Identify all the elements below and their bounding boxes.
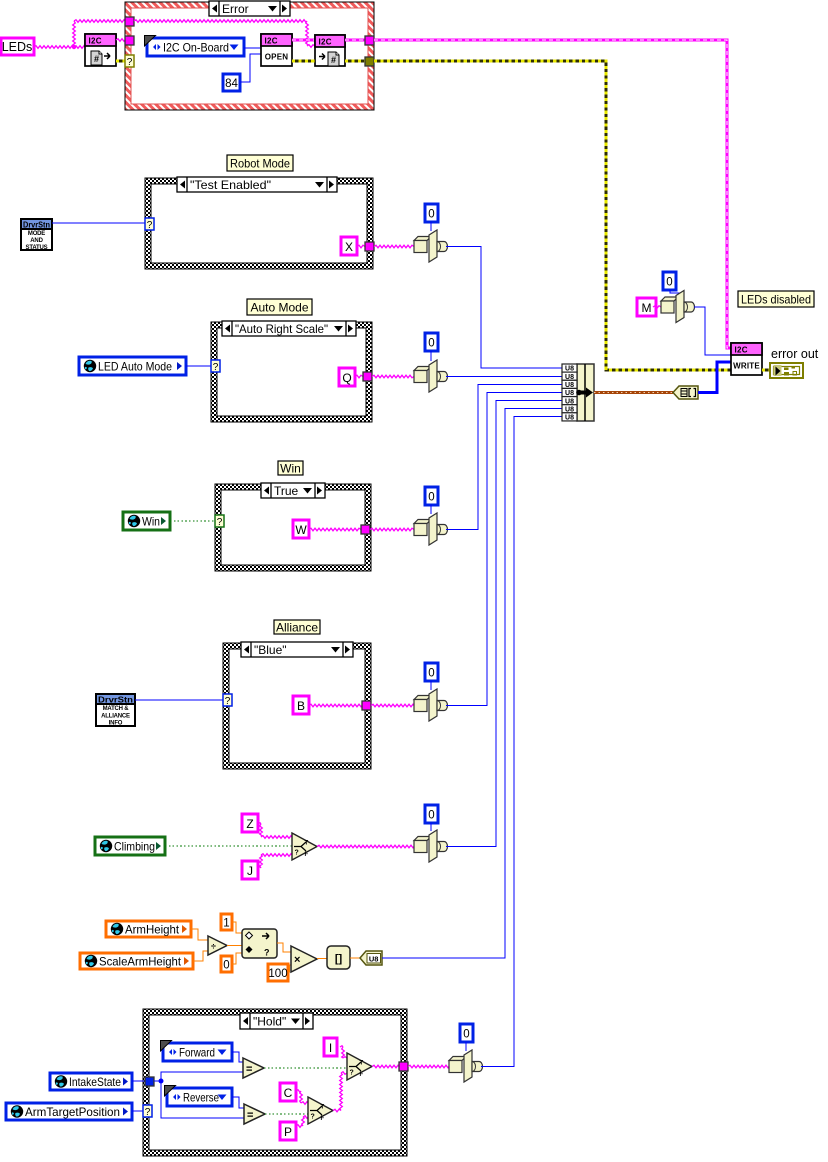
multiply node — [291, 946, 317, 972]
svg-text:0: 0 — [428, 209, 434, 221]
svg-text:Reverse: Reverse — [183, 1091, 219, 1105]
label Win — [278, 461, 303, 476]
wire C to select-CP — [296, 1090, 308, 1105]
constant 0 (climbing) — [425, 805, 438, 823]
global ArmHeight — [106, 921, 191, 937]
svg-text:"Test Enabled": "Test Enabled" — [190, 178, 271, 192]
string constant B — [293, 696, 309, 714]
svg-text:Robot Mode: Robot Mode — [230, 157, 290, 171]
case structure Win — [215, 484, 371, 571]
select node I — [347, 1053, 372, 1080]
node U3 I2C write-register (arrow page#) — [315, 35, 345, 66]
in-range-and-coerce node — [242, 929, 277, 958]
tunnel IntakeState (blue) — [145, 1077, 154, 1086]
wire refnum U3 to right tunnel — [345, 39, 365, 42]
wire 0 to typecast alliance — [430, 681, 432, 690]
svg-text:LED Auto Mode: LED Auto Mode — [98, 360, 172, 374]
svg-text:C: C — [284, 1086, 293, 1100]
svg-text:I: I — [329, 1041, 332, 1055]
svg-text:ArmHeight: ArmHeight — [125, 923, 180, 937]
wire refnum long (to I2C WRITE) — [374, 40, 731, 348]
wire IntakeState to tunnel — [132, 1080, 145, 1082]
wire 100 to multiply — [288, 965, 291, 972]
svg-text:I2C: I2C — [265, 37, 278, 46]
divide node — [208, 936, 227, 955]
indicator error out — [770, 347, 819, 378]
svg-text:?: ? — [264, 948, 270, 958]
string constant W — [293, 520, 309, 538]
string constant C — [280, 1083, 296, 1101]
case selector Hold — [240, 1013, 313, 1029]
node U1 I2C set-address (page# then arrow) — [85, 34, 116, 66]
svg-text:0: 0 — [428, 492, 434, 504]
constant 0 (hold) — [460, 1024, 473, 1042]
svg-text:MATCH &: MATCH & — [103, 706, 130, 712]
wire 1 to in-range — [232, 922, 242, 933]
svg-text:0: 0 — [223, 960, 229, 972]
bundle node (7x U8) — [562, 364, 594, 422]
wire error U2 to U3 — [292, 60, 315, 63]
wire Z to select — [258, 823, 292, 839]
tunnel B out — [362, 701, 371, 710]
wire I to select-I — [340, 1046, 347, 1058]
svg-text:0: 0 — [428, 668, 434, 680]
control LEDs (string control label) — [1, 38, 34, 55]
case structure Auto Mode — [211, 322, 372, 422]
wire U1 refnum out to tunnel T2 — [116, 39, 125, 42]
case structure Alliance — [223, 643, 371, 769]
wire byte win to bundle — [446, 385, 562, 530]
wire Climbing boolean to select — [165, 845, 292, 847]
enum constant I2C On-Board — [145, 36, 245, 57]
equal node 1 — [243, 1058, 264, 1078]
global LED Auto Mode — [79, 357, 186, 375]
svg-text:#: # — [94, 54, 99, 64]
wire byte robot to bundle — [446, 247, 562, 369]
constant 100 — [268, 964, 288, 981]
case selector Auto Right Scale — [222, 321, 356, 336]
wire equal1 boolean to select-I — [264, 1067, 347, 1069]
wire M to typecast — [653, 306, 661, 309]
node U4 I2C WRITE — [731, 343, 762, 375]
global ArmTargetPosition — [6, 1103, 132, 1120]
svg-text:STATUS: STATUS — [26, 245, 48, 251]
typecast win — [414, 513, 448, 545]
constant 0 (auto) — [425, 333, 438, 351]
selector tunnel ? alliance — [223, 694, 232, 707]
wire select-I out to tunnel — [372, 1065, 399, 1068]
case structure Hold — [143, 1009, 407, 1156]
tunnel T2 magenta (left) — [125, 36, 134, 45]
svg-text:IntakeState: IntakeState — [69, 1075, 121, 1089]
svg-text:W: W — [295, 523, 307, 537]
svg-text:Z: Z — [246, 817, 253, 831]
svg-text:?: ? — [213, 362, 219, 373]
case selector label Error — [209, 1, 290, 16]
constant 84 — [223, 74, 240, 91]
svg-text:Win: Win — [142, 515, 160, 529]
svg-text:÷: ÷ — [211, 942, 216, 952]
wire equal2 boolean to select-CP — [265, 1113, 308, 1115]
wire B tunnel to typecast — [371, 704, 414, 707]
node DrvrStn MODE AND STATUS — [21, 219, 52, 251]
typecast auto-mode — [414, 360, 448, 392]
wire in-range to multiply — [277, 943, 291, 952]
constant 0 (alliance) — [425, 663, 438, 681]
svg-text:"Auto Right Scale": "Auto Right Scale" — [235, 322, 328, 336]
tunnel T1 magenta (left, LEDs wire) — [125, 17, 134, 26]
svg-text:0: 0 — [428, 810, 434, 822]
svg-text:0: 0 — [666, 277, 672, 289]
wire W tunnel to typecast — [370, 528, 414, 531]
wire IntakeState branch (junction) — [154, 1072, 244, 1118]
svg-text:?: ? — [145, 1107, 151, 1118]
wire dashed magenta from T1 to node U3 — [134, 20, 315, 48]
svg-text:DrvrStn: DrvrStn — [23, 221, 50, 230]
selector tunnel ? win — [215, 515, 224, 528]
wire 84 to OPEN — [240, 54, 261, 82]
typecast M — [661, 291, 695, 323]
string constant M — [637, 298, 656, 316]
svg-text:LEDs disabled: LEDs disabled — [741, 293, 811, 307]
select node climbing — [292, 833, 317, 860]
global ScaleArmHeight — [80, 953, 193, 969]
wire U8 array to WRITE — [698, 362, 731, 393]
wire X to tunnel — [357, 245, 365, 248]
wire 0 to typecast — [430, 222, 432, 231]
svg-text:X: X — [345, 240, 353, 254]
wire hold tunnel to typecast — [408, 1065, 449, 1068]
string constant Q — [339, 368, 355, 386]
selector tunnel ? (error) — [125, 55, 134, 68]
wire error long (to I2C WRITE) — [374, 61, 731, 370]
wire byte alliance to bundle — [446, 393, 562, 706]
label LEDs disabled — [738, 291, 814, 307]
round-to-nearest node — [327, 946, 350, 969]
svg-text:LEDs: LEDs — [2, 40, 33, 54]
wire refnum OPEN to U3 — [292, 39, 315, 42]
svg-text:Forward: Forward — [179, 1046, 215, 1060]
wire Forward to equal1 — [232, 1052, 243, 1062]
wire 0 to typecast hold — [465, 1042, 467, 1051]
wire ScaleArmHeight to divide — [193, 951, 208, 961]
typecast climbing — [414, 830, 448, 862]
svg-text:B: B — [297, 699, 305, 713]
svg-text:"Blue": "Blue" — [254, 643, 287, 657]
string constant X — [341, 237, 357, 255]
equal node 2 — [244, 1104, 265, 1124]
case structure Error (red hatch border) — [125, 2, 374, 110]
svg-text:#: # — [331, 55, 336, 65]
svg-text:[]: [] — [335, 953, 343, 965]
tunnel olive right (error out) — [365, 57, 374, 66]
wire ArmHeight to divide — [191, 929, 208, 940]
svg-text:I2C: I2C — [89, 37, 102, 46]
svg-text:0: 0 — [463, 1029, 469, 1041]
enum constant Reverse — [165, 1086, 233, 1107]
svg-text:84: 84 — [225, 78, 238, 90]
svg-text:MODE: MODE — [28, 231, 45, 237]
wire Win boolean to selector — [170, 520, 215, 522]
selector tunnel ? hold — [143, 1105, 152, 1118]
wire X tunnel to typecast — [374, 245, 414, 248]
wire Reverse to equal2 — [232, 1097, 244, 1108]
svg-text:WRITE: WRITE — [733, 362, 760, 371]
svg-text:?: ? — [225, 696, 231, 707]
svg-text:P: P — [284, 1125, 292, 1139]
to-U8 conversion node — [360, 951, 382, 965]
wire B to tunnel — [309, 704, 362, 707]
wire W to tunnel — [309, 528, 361, 531]
wire divide to in-range — [227, 945, 242, 947]
global IntakeState — [50, 1073, 132, 1090]
svg-text:True: True — [274, 484, 299, 498]
wire U1 error out to selector tunnel — [116, 60, 125, 63]
svg-text:"Hold": "Hold" — [253, 1015, 286, 1029]
label Robot Mode — [227, 155, 293, 171]
svg-text:×: × — [294, 954, 300, 966]
svg-text:1: 1 — [223, 918, 229, 930]
constant 0 (M) — [663, 272, 676, 290]
wire DrvrStn2 to selector — [135, 699, 223, 701]
svg-text:I2C: I2C — [319, 38, 332, 47]
wire byte hold to bundle — [481, 417, 562, 1067]
wire 0 to in-range — [232, 953, 242, 964]
typecast hold — [449, 1050, 483, 1082]
svg-text:Error: Error — [222, 2, 249, 16]
tunnel W out — [361, 525, 370, 534]
label Auto Mode — [247, 299, 312, 315]
svg-text:INFO: INFO — [109, 721, 123, 727]
svg-text:U8: U8 — [369, 955, 379, 964]
case structure Robot Mode — [145, 178, 373, 269]
typecast robot-mode — [414, 230, 448, 262]
wire byte arm to bundle — [382, 409, 562, 959]
wire ArmTargetPosition to selector — [132, 1110, 143, 1112]
wire DrvrStn to selector — [52, 222, 145, 224]
case selector Blue — [241, 642, 353, 657]
svg-text:I2C On-Board: I2C On-Board — [163, 41, 229, 55]
global Climbing — [95, 837, 165, 855]
svg-text:M: M — [642, 301, 652, 315]
node DrvrStn MATCH ALLIANCE INFO — [96, 694, 135, 727]
svg-text:U8: U8 — [565, 415, 574, 422]
enum constant Forward — [161, 1041, 233, 1062]
selector tunnel ? auto-mode — [211, 360, 220, 373]
wire Q to tunnel — [355, 375, 363, 378]
svg-text:Win: Win — [280, 462, 301, 476]
constant 0 (win) — [425, 487, 438, 505]
wire 0 to typecast auto — [430, 351, 432, 361]
svg-text:?: ? — [147, 220, 153, 231]
string constant J — [242, 861, 258, 879]
wire P to select-CP — [296, 1116, 308, 1128]
tunnel X out — [365, 242, 374, 251]
constant 0 (robot) — [425, 204, 438, 222]
typecast alliance — [414, 689, 448, 721]
svg-text:?: ? — [217, 517, 223, 528]
label Alliance — [274, 620, 320, 635]
wire select out to typecast — [317, 845, 414, 848]
wire byte auto to bundle — [446, 376, 562, 378]
svg-text:error out: error out — [771, 347, 819, 361]
wire error U3 to right tunnel — [345, 60, 365, 63]
wire 0 to typecast win — [430, 505, 432, 514]
cluster-to-array node — [673, 386, 698, 399]
svg-text:ArmTargetPosition: ArmTargetPosition — [25, 1105, 120, 1119]
svg-text:Alliance: Alliance — [276, 621, 318, 635]
svg-text:0: 0 — [428, 338, 434, 350]
svg-text:Auto Mode: Auto Mode — [250, 301, 308, 315]
wire Q tunnel to typecast — [372, 375, 414, 378]
svg-text:AND: AND — [30, 238, 43, 244]
string constant P — [280, 1122, 296, 1140]
svg-text:I2C: I2C — [735, 346, 748, 355]
constant 1 (arm) — [221, 914, 232, 930]
wire byte climbing to bundle — [446, 401, 562, 847]
selector tunnel ? robot-mode — [145, 218, 154, 231]
svg-text:DrvrStn: DrvrStn — [98, 696, 133, 705]
string constant Z — [242, 814, 258, 832]
wire round to U8 conv — [350, 957, 360, 959]
wire cluster (bundle to cluster-to-array) — [594, 391, 673, 394]
wire enum to OPEN — [244, 47, 261, 49]
svg-text:Q: Q — [342, 371, 351, 385]
wire J to select — [258, 854, 292, 868]
wire error WRITE to error out — [762, 369, 770, 372]
svg-text:J: J — [247, 864, 253, 878]
string constant I — [324, 1038, 337, 1056]
tunnel Q out — [363, 372, 372, 381]
case selector Test Enabled — [177, 177, 337, 192]
svg-text:?: ? — [127, 57, 133, 68]
wire multiply to round — [317, 958, 327, 960]
svg-text:OPEN: OPEN — [265, 53, 288, 62]
wire LED Auto Mode to selector — [186, 365, 211, 367]
constant 0 (arm low) — [221, 956, 232, 972]
global Win — [123, 512, 170, 530]
node U2 I2C OPEN — [261, 34, 292, 66]
tunnel magenta right (refnum out) — [365, 36, 374, 45]
case selector True — [261, 483, 325, 498]
wire select-CP out to select-I — [333, 1072, 347, 1112]
svg-text:Climbing: Climbing — [114, 840, 155, 854]
select node CP — [308, 1097, 333, 1124]
wire M byte to WRITE — [694, 307, 731, 355]
svg-text:ScaleArmHeight: ScaleArmHeight — [99, 955, 182, 969]
wire 0 to typecast M — [670, 290, 679, 297]
svg-text:100: 100 — [268, 968, 287, 980]
wire 0 to typecast climbing — [430, 823, 432, 831]
svg-text:ALLIANCE: ALLIANCE — [101, 713, 130, 719]
wire LEDs string (wavy magenta) with junction — [34, 20, 125, 50]
tunnel hold out — [399, 1062, 408, 1071]
